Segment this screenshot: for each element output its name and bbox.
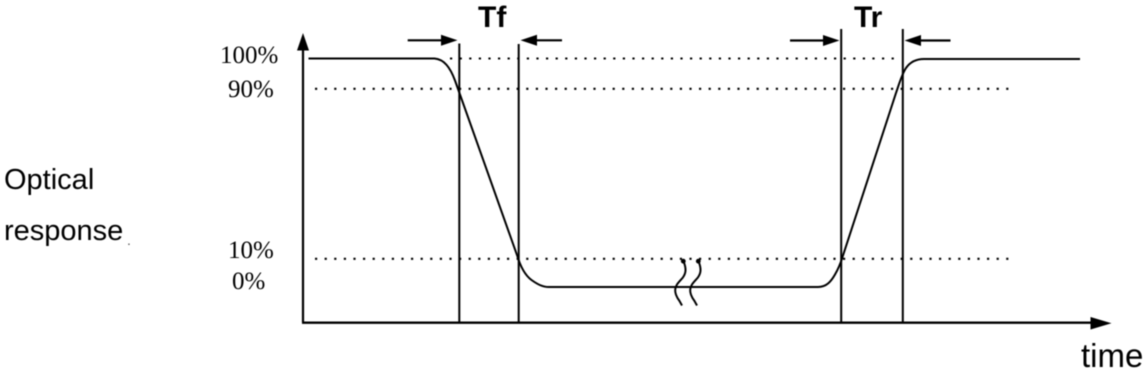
waveform optical response curve bbox=[309, 59, 1081, 288]
vertical line Tr right bbox=[902, 29, 904, 322]
y-axis arrowhead bbox=[297, 33, 309, 51]
arrow left into Tf right line bbox=[535, 39, 562, 41]
arrow right into Tr left line bbox=[790, 39, 826, 41]
break mark right squiggle bbox=[696, 259, 701, 264]
label time bbox=[1081, 339, 1143, 372]
vertical line Tf right bbox=[518, 44, 520, 322]
vertical line Tf left bbox=[458, 44, 460, 323]
y-axis bbox=[302, 47, 304, 323]
stray period after response bbox=[127, 233, 131, 247]
label Tr bbox=[854, 3, 882, 33]
label 90% bbox=[228, 77, 274, 102]
x-axis arrowhead bbox=[1091, 317, 1112, 330]
arrow right into Tf left line bbox=[408, 39, 444, 41]
vertical line Tr left bbox=[840, 29, 842, 322]
label Optical response bbox=[4, 155, 123, 257]
arrow left into Tr right line bbox=[921, 39, 951, 41]
dotted line 100% level bbox=[450, 57, 894, 59]
label 100% bbox=[220, 43, 278, 68]
break mark left squiggle bbox=[681, 259, 686, 264]
label Tf bbox=[478, 3, 506, 33]
label 10% bbox=[228, 238, 274, 263]
dotted line 90% level bbox=[315, 88, 1013, 90]
x-axis bbox=[302, 322, 1093, 324]
label 0% bbox=[232, 269, 265, 294]
dotted line 10% level bbox=[315, 258, 1013, 260]
